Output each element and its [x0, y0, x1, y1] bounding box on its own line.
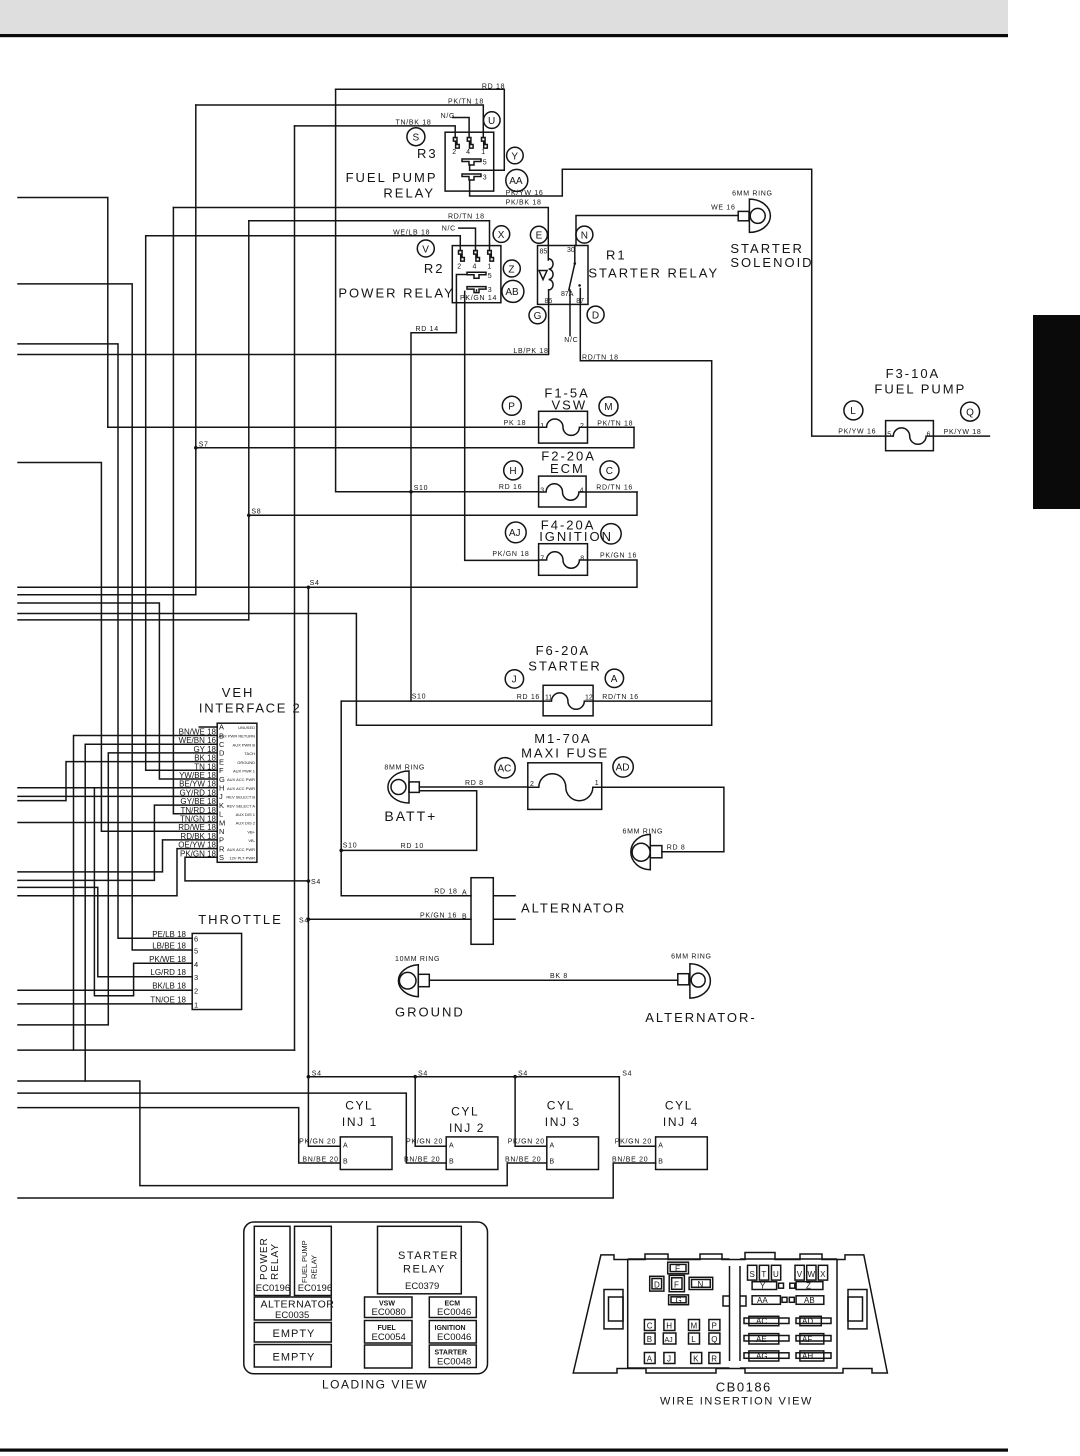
wire VEH pin F TN 18 — [146, 769, 218, 771]
node S10 junction — [339, 849, 343, 853]
svg-text:RD 10: RD 10 — [401, 843, 424, 850]
svg-text:RD 16: RD 16 — [499, 484, 522, 491]
svg-text:AB: AB — [804, 1296, 815, 1305]
svg-text:N: N — [219, 827, 224, 836]
svg-text:S4: S4 — [312, 1070, 322, 1077]
svg-text:EC0054: EC0054 — [372, 1332, 406, 1343]
wire TN/BK to left edge — [18, 1049, 295, 1051]
socket VSW EC0080 — [365, 1297, 413, 1318]
svg-text:CYL: CYL — [547, 1099, 575, 1113]
stub N/G on R3 pin 4 — [453, 118, 469, 138]
wire BN/BE 20 to INJ4 B — [18, 1163, 656, 1198]
relay R3 pin 2 — [453, 138, 459, 149]
alternator pin B wire PK/GN 16 from S4 — [308, 918, 471, 920]
svg-text:T: T — [761, 1270, 766, 1279]
svg-text:RD 8: RD 8 — [667, 845, 686, 852]
svg-text:VB+: VB+ — [247, 829, 255, 834]
svg-text:PK/YW 16: PK/YW 16 — [506, 190, 544, 197]
svg-text:4: 4 — [580, 488, 584, 495]
svg-text:THROTTLE: THROTTLE — [198, 912, 283, 927]
svg-text:5: 5 — [488, 273, 492, 280]
cavity A — [644, 1353, 655, 1364]
node S4 junction — [307, 586, 311, 590]
cavity J — [664, 1353, 675, 1364]
svg-text:RD 16: RD 16 — [517, 694, 540, 701]
svg-text:STARTER RELAY: STARTER RELAY — [588, 265, 719, 280]
svg-text:E: E — [675, 1264, 680, 1273]
svg-text:CYL: CYL — [451, 1105, 479, 1119]
svg-text:BATT+: BATT+ — [384, 808, 437, 824]
svg-text:PK/GN 14: PK/GN 14 — [460, 295, 497, 302]
svg-text:12: 12 — [585, 695, 593, 702]
svg-text:RELAY: RELAY — [403, 1264, 446, 1276]
svg-text:ALTERNATOR-: ALTERNATOR- — [645, 1010, 757, 1025]
cavity S — [748, 1265, 757, 1280]
svg-text:EMPTY: EMPTY — [273, 1352, 316, 1364]
svg-text:B: B — [343, 1158, 348, 1165]
svg-text:1: 1 — [540, 423, 544, 430]
svg-text:S4: S4 — [418, 1070, 428, 1077]
svg-text:S10: S10 — [343, 842, 358, 849]
connector circle D — [587, 306, 604, 323]
wire VEH pin L TN/RD 18 — [173, 813, 217, 815]
svg-text:S: S — [413, 133, 420, 144]
svg-text:C: C — [219, 740, 225, 749]
fuse F2-20A ECM — [539, 476, 587, 507]
fuse panel LOADING VIEW — [244, 1222, 488, 1374]
svg-text:3: 3 — [483, 175, 487, 182]
svg-text:Y: Y — [760, 1282, 766, 1291]
wire WE 16 from pin 30 to starter solenoid — [576, 216, 738, 246]
svg-text:P: P — [712, 1322, 717, 1331]
fuse F4-20A IGNITION — [539, 544, 588, 576]
svg-text:H: H — [666, 1322, 672, 1331]
wire S7 return from F1 output — [196, 427, 634, 448]
svg-text:A: A — [449, 1142, 454, 1149]
svg-text:S10: S10 — [414, 485, 429, 492]
wire S8 return from F2 output — [249, 492, 637, 515]
svg-text:BN/BE 20: BN/BE 20 — [404, 1156, 440, 1163]
svg-text:S4: S4 — [622, 1070, 632, 1077]
svg-text:AC: AC — [498, 764, 512, 775]
svg-text:S8: S8 — [251, 508, 261, 515]
relay socket FUEL PUMP RELAY — [295, 1226, 332, 1295]
alternator connector — [471, 878, 493, 945]
injector CYL INJ 3 connector — [547, 1137, 599, 1170]
svg-text:S: S — [219, 853, 224, 862]
svg-text:R1: R1 — [606, 248, 627, 263]
svg-text:R: R — [711, 1355, 717, 1364]
svg-text:X: X — [498, 230, 505, 241]
wire VEH pin N RD/WE 18 — [18, 463, 217, 832]
svg-text:GROUND: GROUND — [237, 760, 255, 765]
wire RD 8 from M1 pin 1 to 6mm ring — [602, 787, 724, 852]
fuse F1 element — [539, 419, 588, 435]
wire VEH pin H BE/YW 18 — [18, 787, 217, 789]
svg-text:WIRE INSERTION VIEW: WIRE INSERTION VIEW — [660, 1396, 813, 1408]
svg-text:B: B — [658, 1158, 663, 1165]
svg-text:6MM RING: 6MM RING — [623, 828, 664, 835]
wire RD from F6 wire down to S10 splice — [340, 701, 342, 850]
svg-text:SOLENOID: SOLENOID — [730, 255, 813, 270]
svg-text:2: 2 — [457, 264, 461, 271]
svg-text:J: J — [219, 792, 223, 801]
svg-text:85: 85 — [540, 248, 548, 255]
alternator pin A stub — [493, 895, 515, 897]
svg-text:PK/GN 20: PK/GN 20 — [299, 1138, 336, 1145]
fuse F2 element — [539, 484, 587, 500]
svg-text:N: N — [581, 230, 588, 241]
throttle pin numbers — [194, 934, 198, 1009]
svg-text:STARTER: STARTER — [435, 1350, 468, 1357]
cavity U — [771, 1265, 780, 1280]
svg-text:BK 8: BK 8 — [550, 973, 568, 980]
relay R1 switch pin 30 — [574, 246, 576, 264]
svg-text:RD 14: RD 14 — [416, 326, 439, 333]
svg-text:1: 1 — [194, 1000, 198, 1009]
wire VEH pin P RD/BK 18 — [18, 840, 217, 872]
relay socket STARTER RELAY — [378, 1226, 462, 1294]
svg-text:RD 18: RD 18 — [434, 889, 457, 896]
svg-text:BN/BE 20: BN/BE 20 — [302, 1156, 338, 1163]
svg-text:R2: R2 — [424, 261, 445, 276]
ground ring terminal 10MM RING — [398, 965, 429, 997]
svg-text:B: B — [550, 1158, 555, 1165]
cavity B — [644, 1333, 655, 1344]
svg-text:PK/GN 20: PK/GN 20 — [615, 1138, 652, 1145]
connector circle M — [599, 397, 618, 416]
svg-text:2: 2 — [530, 781, 534, 788]
svg-text:RELAY: RELAY — [270, 1243, 281, 1280]
svg-text:J: J — [512, 675, 517, 686]
cavity Y — [752, 1282, 783, 1291]
svg-text:Q: Q — [966, 407, 974, 418]
svg-text:4: 4 — [466, 149, 470, 156]
wire VEH pin G YW/BE 18 — [18, 603, 217, 779]
S4 injector bus — [308, 1076, 619, 1078]
wire RD 14 from R2 pin 5 to S10 bus — [411, 275, 467, 702]
fuse M1-70A MAXI FUSE — [528, 763, 602, 810]
relay R3 pin 3 contact — [462, 174, 481, 180]
svg-text:3: 3 — [540, 488, 544, 495]
cavity T — [759, 1265, 768, 1280]
svg-text:S4: S4 — [310, 580, 320, 587]
wire PK/GN 20 to INJ4 A — [619, 1077, 655, 1147]
connector circle AA — [506, 169, 528, 191]
svg-text:AUX PWR RETURN: AUX PWR RETURN — [219, 734, 256, 739]
svg-text:R3: R3 — [417, 146, 438, 161]
wire RD bus vertical to F2 — [336, 89, 539, 492]
svg-text:RELAY: RELAY — [310, 1255, 319, 1279]
svg-text:5: 5 — [483, 160, 487, 167]
svg-text:U: U — [773, 1270, 779, 1279]
node S4 junction at alternator B — [307, 918, 311, 922]
svg-text:N/C: N/C — [442, 225, 456, 232]
relay R3 pin 4 — [467, 138, 473, 149]
wire S8 to left edge — [18, 619, 249, 621]
svg-text:11: 11 — [545, 695, 552, 702]
wire PK/BK 18 to R1 coil — [173, 208, 548, 261]
connector circle AC — [495, 758, 515, 778]
wire RD 16 into F6 — [342, 700, 544, 702]
svg-text:G: G — [676, 1296, 682, 1305]
socket ALTERNATOR EC0035 — [254, 1297, 331, 1320]
wire PK/GN 14 from R2 pin 3 to fuse F4 — [465, 290, 539, 560]
svg-text:EC0046: EC0046 — [437, 1307, 471, 1318]
relay R2 — [452, 246, 501, 303]
wire VEH pin A stub — [199, 726, 217, 728]
wire throttle pin 3 LG/RD 18 — [18, 887, 192, 976]
connector circle L — [844, 401, 863, 420]
wire S7 to left edge — [18, 594, 196, 596]
svg-text:INTERFACE 2: INTERFACE 2 — [199, 700, 302, 715]
relay R3 pin 1 — [482, 138, 488, 149]
cavity AE — [744, 1334, 789, 1344]
wire BN/BE 20 to INJ1 B — [18, 1108, 340, 1163]
wire PK/YW 16 from R3 pin 3 to fuse F3 — [470, 169, 886, 436]
wire BN/BE 20 to INJ2 B — [18, 1093, 446, 1163]
svg-text:AUX PWR 1: AUX PWR 1 — [233, 769, 256, 774]
connector CB0186 housing outline — [573, 1253, 887, 1374]
svg-text:G: G — [534, 311, 542, 322]
connector CB0186 inner frame — [628, 1259, 837, 1368]
svg-text:6MM RING: 6MM RING — [732, 191, 773, 198]
cavity H — [664, 1320, 675, 1331]
wire RD 8 from BATT+ ring to M1 pin 2 — [419, 786, 528, 788]
cavity P — [709, 1320, 720, 1331]
svg-text:H: H — [509, 466, 516, 477]
socket EMPTY — [254, 1323, 331, 1343]
svg-text:4: 4 — [473, 264, 477, 271]
svg-text:PK/YW 16: PK/YW 16 — [838, 428, 876, 435]
svg-text:3: 3 — [194, 973, 198, 982]
svg-text:REV SELECT A: REV SELECT A — [227, 803, 256, 808]
svg-text:AA: AA — [509, 176, 523, 187]
svg-text:FUEL PUMP: FUEL PUMP — [874, 382, 966, 397]
connector circle U — [484, 112, 501, 129]
svg-text:EC0196: EC0196 — [256, 1283, 290, 1294]
connector circle AF — [601, 524, 621, 544]
svg-text:VEH: VEH — [222, 685, 255, 700]
injector CYL INJ 4 connector — [656, 1137, 708, 1170]
wire PK 18 into F1 — [108, 426, 539, 428]
cavity R — [709, 1353, 720, 1364]
svg-text:AUX ACC PWR: AUX ACC PWR — [227, 786, 255, 791]
socket STARTER EC0048 — [429, 1345, 476, 1368]
cavity Z — [790, 1282, 823, 1291]
svg-text:PE/LB 18: PE/LB 18 — [152, 930, 186, 939]
wire PK/TN 18 from S7 to R3 pin 1 — [196, 105, 484, 138]
wire VEH pin K GY/BE 18 — [18, 805, 217, 880]
svg-text:Y: Y — [511, 151, 518, 162]
svg-text:4: 4 — [194, 960, 198, 969]
cavity D — [650, 1276, 664, 1291]
wire VEH pin C WE/BN 16 — [85, 744, 217, 1081]
connector circle AB — [502, 280, 524, 302]
svg-text:F: F — [674, 1281, 679, 1290]
svg-text:D: D — [219, 749, 225, 758]
connector circle X — [493, 226, 510, 243]
svg-text:EC0379: EC0379 — [405, 1281, 439, 1292]
wire PK/GN 20 to INJ1 A — [308, 1077, 340, 1147]
relay R1 coil — [549, 259, 554, 290]
svg-text:PK/GN 18: PK/GN 18 — [492, 551, 529, 558]
socket empty slot — [365, 1345, 413, 1368]
svg-text:RD 8: RD 8 — [465, 780, 484, 787]
socket ECM EC0046 — [429, 1297, 476, 1318]
cavity AH — [796, 1351, 831, 1361]
svg-text:D: D — [654, 1281, 660, 1290]
svg-text:PK/GN 20: PK/GN 20 — [508, 1138, 545, 1145]
svg-text:PK/GN 16: PK/GN 16 — [600, 553, 637, 560]
svg-text:RD/TN 16: RD/TN 16 — [596, 484, 633, 491]
wire throttle pin 1 TN/OE 18 — [18, 1003, 192, 1005]
wire WE/LB 18 to R2 pin 2 — [146, 236, 461, 251]
svg-text:6: 6 — [194, 934, 198, 943]
VEH pin letters A-S — [219, 723, 225, 863]
connector circle E — [530, 226, 547, 243]
node S10 junction — [409, 490, 413, 494]
svg-text:VB-: VB- — [248, 838, 255, 843]
svg-text:Z: Z — [508, 264, 514, 275]
svg-text:AF: AF — [802, 1335, 812, 1344]
svg-text:K: K — [693, 1355, 699, 1364]
connector circle S — [407, 128, 425, 146]
injector CYL INJ 1 connector — [340, 1137, 392, 1170]
wire PK/GN 20 to INJ2 A — [415, 1077, 446, 1147]
svg-text:2: 2 — [452, 149, 456, 156]
svg-text:LOADING VIEW: LOADING VIEW — [322, 1378, 428, 1392]
wire TN/BK 18 to R3 pin 2 — [295, 126, 456, 138]
svg-text:INJ 2: INJ 2 — [449, 1121, 485, 1135]
svg-text:2: 2 — [194, 987, 198, 996]
wire S4 vertical bus — [307, 587, 309, 1076]
svg-text:PK/GN 20: PK/GN 20 — [406, 1138, 443, 1145]
cavity G — [669, 1295, 689, 1305]
svg-text:N: N — [698, 1280, 704, 1289]
connector circle V — [417, 240, 434, 257]
wire RD/TN 16 out of F6 — [593, 700, 712, 702]
svg-text:S: S — [750, 1270, 755, 1279]
svg-text:6MM RING: 6MM RING — [671, 954, 712, 961]
svg-text:A: A — [647, 1355, 653, 1364]
connector circle J — [505, 670, 523, 688]
relay R1 pin 87 stub — [579, 289, 581, 305]
connector circle Y — [507, 147, 524, 164]
svg-text:1: 1 — [481, 149, 485, 156]
svg-text:FUEL PUMP: FUEL PUMP — [346, 170, 438, 185]
svg-text:AUX ACC PWR: AUX ACC PWR — [227, 777, 255, 782]
wire PK/TN 16 out of F1 — [588, 426, 635, 428]
node S4 junction — [513, 1075, 517, 1079]
svg-text:EC0196: EC0196 — [298, 1283, 332, 1294]
node S8 junction — [247, 514, 251, 518]
svg-text:STARTER: STARTER — [398, 1250, 459, 1262]
battery ring terminal 8MM RING BATT+ — [388, 771, 419, 803]
svg-text:WE/LB 18: WE/LB 18 — [393, 229, 430, 236]
cavity N — [689, 1277, 713, 1289]
svg-text:E: E — [219, 757, 224, 766]
wire VEH pin R OE/YW 18 — [18, 849, 217, 896]
connector CB0186 center divider — [723, 1266, 746, 1361]
svg-text:BN/BE 20: BN/BE 20 — [505, 1156, 541, 1163]
connector circle Z — [503, 260, 520, 277]
svg-text:Q: Q — [711, 1335, 717, 1344]
cavity L — [689, 1333, 700, 1344]
svg-text:FUEL: FUEL — [378, 1325, 397, 1332]
cavity K — [691, 1353, 702, 1364]
svg-text:POWER: POWER — [259, 1237, 270, 1280]
svg-text:J: J — [667, 1355, 671, 1364]
relay R1 — [538, 246, 589, 305]
connector CB0186 right wing — [848, 1290, 867, 1329]
cavity AJ — [663, 1333, 676, 1344]
svg-text:PK/YW 18: PK/YW 18 — [944, 429, 982, 436]
connector circle C — [600, 461, 619, 480]
svg-text:STARTER: STARTER — [730, 241, 803, 256]
svg-text:PK/TN 18: PK/TN 18 — [448, 99, 484, 106]
cavity AB — [789, 1296, 824, 1305]
svg-text:REV SELECT B: REV SELECT B — [226, 795, 255, 800]
svg-text:7: 7 — [540, 556, 544, 563]
svg-text:M1-70A: M1-70A — [534, 731, 592, 746]
svg-text:V: V — [797, 1270, 803, 1279]
connector circle AJ — [505, 522, 526, 543]
svg-text:AUX DIS 1: AUX DIS 1 — [236, 812, 256, 817]
svg-text:6: 6 — [927, 432, 931, 439]
fuse F3-10A FUEL PUMP — [886, 421, 934, 451]
wire LB/PK 18 from R1 pin 86 to left edge — [18, 290, 549, 355]
svg-text:C: C — [606, 466, 613, 477]
injector CYL INJ 2 connector — [446, 1137, 498, 1170]
cavity AA — [752, 1296, 787, 1305]
svg-text:IGNITION: IGNITION — [435, 1325, 466, 1332]
svg-text:UNUSED: UNUSED — [238, 725, 255, 730]
svg-text:A: A — [550, 1142, 555, 1149]
svg-text:A: A — [343, 1142, 348, 1149]
node S4 junction — [307, 1075, 311, 1079]
relay R1 coil arrow — [539, 271, 547, 280]
socket EMPTY — [254, 1345, 331, 1368]
cavity Q — [709, 1333, 720, 1344]
connector VEH INTERFACE 2 — [217, 723, 257, 862]
svg-text:M: M — [219, 818, 225, 827]
cavity V — [795, 1265, 804, 1280]
svg-text:RELAY: RELAY — [383, 186, 435, 201]
wire PK 18 riser from left edge — [18, 198, 108, 428]
svg-text:8: 8 — [580, 556, 584, 563]
svg-text:PK/GN 16: PK/GN 16 — [420, 912, 457, 919]
svg-text:A: A — [219, 723, 224, 732]
wire RD/TN 18 from R1 pin 87 to F6 — [18, 304, 712, 725]
relay R1 switch blade — [569, 264, 575, 291]
svg-text:10MM RING: 10MM RING — [395, 956, 440, 963]
svg-text:FUEL PUMP: FUEL PUMP — [300, 1240, 309, 1283]
node S4 junction upper — [307, 879, 311, 883]
wire RD 10 from BATT+ to S10 splice — [341, 791, 477, 851]
svg-text:S10: S10 — [412, 694, 427, 701]
svg-text:S4: S4 — [311, 879, 321, 886]
relay R2 pin 1 — [488, 251, 494, 262]
svg-text:8MM RING: 8MM RING — [384, 765, 425, 772]
cavity AC — [744, 1316, 789, 1326]
cavity E — [668, 1262, 689, 1274]
svg-text:INJ 3: INJ 3 — [545, 1115, 581, 1129]
relay R1 contact 87A — [578, 284, 581, 287]
svg-text:EC0080: EC0080 — [372, 1307, 406, 1318]
svg-text:AE: AE — [756, 1335, 767, 1344]
wire BN/BE 20 to INJ3 B — [18, 1081, 547, 1186]
